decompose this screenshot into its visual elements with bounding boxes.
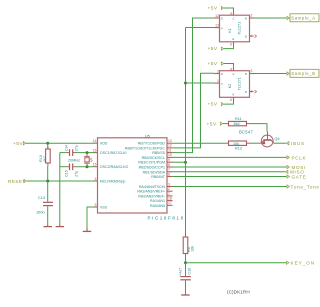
svg-text:E: E — [233, 93, 235, 97]
junction OSC2/crystal — [86, 165, 89, 168]
net label Tune_Tone — [287, 184, 320, 189]
value 100n — [36, 210, 45, 215]
wire OSC2 row — [60, 166, 93, 168]
supply +5V (K1 bottom) — [208, 46, 224, 52]
svg-text:RB1/SDI/SDA: RB1/SDI/SDA — [143, 170, 166, 174]
pin marks K2 — [221, 72, 247, 97]
resistor R3 — [225, 141, 251, 145]
value BC547 — [239, 129, 253, 134]
svg-text:10: 10 — [168, 153, 172, 157]
svg-text:1: 1 — [217, 79, 219, 83]
pin 12 RB6/T1OSO/T1CKI/PGC — [125, 144, 173, 151]
svg-text:OSC1/RA7/CLKI: OSC1/RA7/CLKI — [100, 151, 127, 155]
pin 7 RB1/SDI/SDA — [143, 168, 173, 175]
wire R6 to junction — [185, 256, 187, 263]
svg-text:RB7/T1OSI/PGD: RB7/T1OSI/PGD — [138, 142, 166, 146]
junction RB3/bus — [184, 161, 187, 164]
net label KEY_ON — [287, 261, 316, 266]
value TLC271 (K1) — [238, 22, 242, 35]
svg-text:PIC16F818: PIC16F818 — [148, 215, 185, 220]
svg-text:RA1/AN1: RA1/AN1 — [150, 199, 165, 203]
wire junction to C16 — [185, 263, 187, 276]
wire out Sample_A K1 — [254, 17, 287, 19]
value 20MHz — [68, 158, 80, 162]
wire out Sample_B K2 — [254, 73, 287, 75]
label C16 — [187, 268, 191, 275]
svg-text:RA0/AN0: RA0/AN0 — [150, 204, 165, 208]
svg-text:12: 12 — [168, 144, 172, 148]
wire C13 top — [47, 181, 49, 202]
svg-text:C14: C14 — [64, 145, 68, 152]
supply +5V (Q4 collector) — [207, 122, 223, 128]
svg-text:D: D — [221, 72, 223, 76]
pin 5 VSS — [93, 203, 108, 210]
svg-text:4k7: 4k7 — [43, 156, 47, 162]
net label RESET — [8, 179, 26, 184]
svg-text:+5V: +5V — [208, 46, 218, 52]
svg-text:5: 5 — [95, 203, 97, 207]
svg-text:10k: 10k — [233, 142, 239, 146]
supply +5V (left) — [13, 141, 26, 147]
svg-text:5k6: 5k6 — [234, 122, 240, 126]
svg-text:27p: 27p — [75, 171, 79, 177]
wire K1 in — [186, 27, 215, 29]
svg-text:2: 2 — [251, 13, 253, 17]
svg-text:Q2: Q2 — [89, 157, 93, 162]
net label Sample_A — [287, 14, 319, 22]
label R3 — [235, 147, 242, 151]
svg-text:RB5/SS: RB5/SS — [152, 151, 165, 155]
value 10k (R6) — [190, 246, 194, 252]
svg-text:RA2/AN2/VREF-: RA2/AN2/VREF- — [138, 194, 166, 198]
ground (xtal caps) — [56, 225, 65, 227]
svg-text:14: 14 — [93, 139, 97, 143]
pin right out K1 — [250, 13, 255, 18]
svg-text:(C)DK1RH: (C)DK1RH — [227, 289, 250, 294]
pin 3 RA4/AN4/T0CKI — [139, 182, 173, 189]
svg-text:C16: C16 — [187, 268, 191, 275]
wire bottom +5V K2 — [224, 101, 234, 104]
pin right out K2 — [250, 69, 255, 74]
svg-text:VSS: VSS — [100, 206, 108, 210]
label Q4 — [275, 137, 280, 141]
wire KEY_ON — [186, 262, 287, 264]
ground (C13) — [44, 225, 53, 227]
value TLC271 (K2) — [238, 77, 242, 90]
wire RB7 to base resistor — [173, 142, 226, 144]
svg-text:11: 11 — [168, 148, 172, 152]
svg-text:1: 1 — [168, 192, 170, 196]
supply +5V (K2 top) — [208, 61, 224, 67]
label K1 — [228, 28, 232, 32]
outline K1 — [220, 15, 250, 42]
label Q2 — [89, 157, 93, 162]
junction KEY_ON — [184, 261, 187, 264]
svg-text:U5: U5 — [145, 133, 151, 138]
svg-text:6: 6 — [168, 172, 170, 176]
svg-text:PCLK: PCLK — [292, 155, 307, 160]
svg-text:C15: C15 — [64, 170, 68, 177]
svg-text:4: 4 — [95, 177, 97, 181]
wire OSC1 row — [60, 152, 93, 154]
wire RB2 MOSI — [173, 166, 287, 168]
pin left 2 K1 — [215, 24, 220, 28]
svg-text:GATE: GATE — [292, 174, 307, 179]
net label PCLK — [287, 155, 307, 160]
wire C16 to gnd — [185, 281, 187, 294]
svg-text:Tune_Tone: Tune_Tone — [291, 184, 320, 189]
wire R10 bottom — [47, 166, 49, 181]
pin right nc K2 — [250, 90, 257, 94]
svg-text:+5V: +5V — [13, 141, 23, 147]
svg-text:20MHz: 20MHz — [68, 158, 80, 162]
value 27p (C15) — [75, 171, 79, 177]
svg-text:RB6/T1OSO/T1CKI/PGC: RB6/T1OSO/T1CKI/PGC — [125, 146, 166, 150]
pin top K1 — [230, 11, 233, 16]
wire RA4 Tune_Tone — [173, 186, 287, 188]
svg-text:B: B — [245, 16, 247, 20]
svg-text:RA3/AN3/VREF+: RA3/AN3/VREF+ — [137, 190, 165, 194]
pin 13 RB7/T1OSI/PGD — [138, 139, 173, 146]
net label IBUS — [287, 141, 305, 146]
wire RB6 to relay K2 — [173, 73, 215, 148]
svg-text:10k: 10k — [190, 246, 194, 252]
wire RB5 to relay K1 — [173, 18, 215, 153]
resistor R4 — [225, 121, 251, 125]
svg-text:R11: R11 — [235, 117, 242, 121]
svg-text:2: 2 — [168, 187, 170, 191]
outline K2 — [220, 71, 250, 98]
wire K2 in — [186, 82, 215, 84]
capacitor C13 — [43, 202, 53, 205]
svg-text:K1: K1 — [228, 28, 232, 32]
pin 6 RB0/INT — [151, 172, 172, 179]
svg-text:9: 9 — [168, 158, 170, 162]
svg-text:RESET: RESET — [8, 179, 25, 184]
svg-text:16: 16 — [93, 148, 97, 152]
net label MOSI — [287, 165, 306, 170]
value 4u7 (C16) — [179, 268, 183, 276]
svg-text:MCLR/RA5/Vpp: MCLR/RA5/Vpp — [100, 180, 126, 184]
wire vertical bus — [185, 28, 187, 238]
wire +5V rail to VDD — [26, 142, 93, 144]
svg-text:B: B — [245, 34, 247, 38]
label R4 — [235, 117, 242, 121]
wire emitter IBUS — [274, 142, 286, 144]
svg-text:17: 17 — [168, 201, 172, 205]
wire RB1 MISO — [173, 171, 286, 173]
ground (VSS) — [83, 228, 92, 231]
label R10 — [39, 155, 43, 162]
svg-text:RB2/SDO/CCP1: RB2/SDO/CCP1 — [139, 166, 165, 170]
value 10k (R3) — [233, 142, 239, 146]
label K2 — [228, 84, 232, 88]
wire RB4 PCLK — [173, 156, 287, 158]
wire C13 to gnd — [47, 206, 49, 225]
ground (C16) — [181, 293, 190, 295]
svg-text:IBUS: IBUS — [291, 141, 305, 146]
pin 2 RA3/AN3/VREF+ — [137, 187, 172, 194]
svg-text:100n: 100n — [36, 210, 45, 215]
wire RB0 GATE — [173, 176, 287, 178]
value PIC16F818 — [148, 215, 185, 220]
net label MISO — [286, 170, 305, 175]
svg-text:a: a — [221, 26, 223, 30]
supply +5V (K2 bottom) — [208, 102, 224, 108]
svg-text:+5V: +5V — [207, 122, 217, 128]
junction RESET/C13 — [46, 180, 49, 183]
svg-text:VDD: VDD — [100, 142, 108, 146]
svg-text:13: 13 — [215, 24, 219, 28]
svg-text:E: E — [233, 37, 235, 41]
pin right nc K1 — [250, 34, 257, 38]
pin 4 MCLR/RA5/Vpp — [93, 177, 125, 184]
pin 11 RB5/SS — [152, 148, 172, 155]
capacitor C14 — [66, 149, 76, 156]
svg-text:2: 2 — [217, 70, 219, 74]
capacitor C15 — [66, 163, 76, 170]
capacitor C16 — [180, 277, 191, 280]
svg-text:C13: C13 — [38, 195, 45, 200]
resistor R6 — [183, 234, 188, 256]
svg-text:+4u7: +4u7 — [179, 268, 183, 276]
pin top K2 — [230, 67, 233, 72]
wire gnd line (xtal caps) — [59, 153, 61, 225]
svg-text:RB4/SCK/SCL: RB4/SCK/SCL — [142, 156, 165, 160]
svg-text:6: 6 — [230, 42, 232, 46]
svg-text:Q4: Q4 — [275, 137, 280, 141]
value 1k (R4) — [234, 122, 240, 126]
pin 14 VDD — [93, 139, 108, 146]
svg-text:OSC2/RA6/CLKO: OSC2/RA6/CLKO — [100, 165, 129, 169]
value 27p (C14) — [75, 145, 79, 151]
svg-text:TLC271: TLC271 — [238, 77, 242, 90]
pin 18 RA1/AN1 — [150, 196, 172, 203]
svg-text:TLC271: TLC271 — [238, 22, 242, 35]
pin bottom K2 — [230, 97, 233, 102]
svg-text:B: B — [245, 72, 247, 76]
pin 17 RA0/AN0 — [150, 201, 172, 208]
text copyright — [227, 289, 250, 294]
svg-text:Sample_B: Sample_B — [291, 71, 315, 76]
pin 10 RB4/SCK/SCL — [142, 153, 173, 160]
svg-text:BC547: BC547 — [239, 129, 253, 134]
svg-text:13: 13 — [168, 139, 172, 143]
svg-text:C: C — [233, 72, 235, 76]
wire bottom +5V K1 — [224, 46, 234, 49]
svg-text:4: 4 — [250, 34, 252, 38]
wire top +5V K2 — [224, 64, 234, 67]
wire R3 to base — [251, 142, 257, 144]
svg-text:8: 8 — [168, 163, 170, 167]
wire VSS to gnd — [87, 207, 93, 228]
svg-text:Sample_A: Sample_A — [291, 16, 315, 21]
svg-text:K2: K2 — [228, 84, 232, 88]
pin left 1 K2 — [215, 70, 220, 74]
label C14 — [64, 145, 68, 152]
wire R10 top — [47, 143, 49, 149]
net label GATE — [287, 174, 306, 179]
svg-text:RB3/CCP1/PGM: RB3/CCP1/PGM — [138, 161, 165, 165]
svg-text:4: 4 — [250, 90, 252, 94]
pin bottom K1 — [230, 42, 233, 47]
svg-text:+5V: +5V — [208, 102, 218, 108]
pin 15 OSC2/RA6/CLKO — [93, 163, 129, 170]
svg-text:3: 3 — [251, 69, 253, 73]
junction +5V/R10 — [46, 142, 49, 145]
wire RESET to MCLR — [27, 180, 93, 182]
svg-text:D: D — [221, 16, 223, 20]
wire +5V to R4 — [223, 123, 225, 125]
svg-text:15: 15 — [93, 163, 97, 167]
junction K2 in — [184, 82, 187, 85]
label C13 — [38, 195, 45, 200]
wire top +5V K1 — [224, 8, 234, 11]
pin 1 RA2/AN2/VREF- — [138, 192, 172, 199]
label C15 — [64, 170, 68, 177]
svg-text:8: 8 — [230, 12, 232, 16]
svg-text:RA4/AN4/T0CKI: RA4/AN4/T0CKI — [139, 185, 165, 189]
resistor R10 — [46, 146, 51, 166]
pin left 2 K2 — [215, 79, 220, 83]
svg-text:7: 7 — [168, 168, 170, 172]
pin left 1 K1 — [215, 14, 220, 18]
junction OSC1/crystal — [86, 151, 89, 154]
svg-text:8: 8 — [230, 67, 232, 71]
svg-text:R12: R12 — [235, 147, 242, 151]
pin 8 RB2/SDO/CCP1 — [139, 163, 173, 170]
label R6 — [187, 247, 191, 252]
IC U5 outline — [98, 138, 168, 213]
svg-text:C: C — [233, 17, 235, 21]
pin 16 OSC1/RA7/CLKI — [93, 148, 127, 155]
transistor Q4 — [257, 132, 274, 147]
pin 9 RB3/CCP1/PGM — [138, 158, 172, 165]
svg-text:27p: 27p — [75, 145, 79, 151]
value 4k7 — [43, 156, 47, 162]
wire R4 to collector — [251, 124, 268, 132]
svg-text:+5V: +5V — [208, 61, 218, 67]
svg-text:KEY_ON: KEY_ON — [291, 261, 316, 266]
supply +5V (K1 top) — [208, 6, 224, 12]
svg-text:18: 18 — [168, 196, 172, 200]
svg-text:+5V: +5V — [208, 6, 218, 12]
net label Sample_B — [287, 69, 319, 77]
svg-text:12: 12 — [215, 14, 219, 18]
label U5 — [145, 133, 151, 138]
svg-text:RB0/INT: RB0/INT — [151, 175, 166, 179]
wire RB3 to bus — [173, 161, 186, 163]
pin marks K1 — [221, 16, 247, 41]
svg-text:3: 3 — [168, 182, 170, 186]
svg-text:B: B — [245, 90, 247, 94]
svg-text:a: a — [221, 81, 223, 85]
crystal Q2 — [84, 153, 90, 167]
svg-text:6: 6 — [230, 98, 232, 102]
